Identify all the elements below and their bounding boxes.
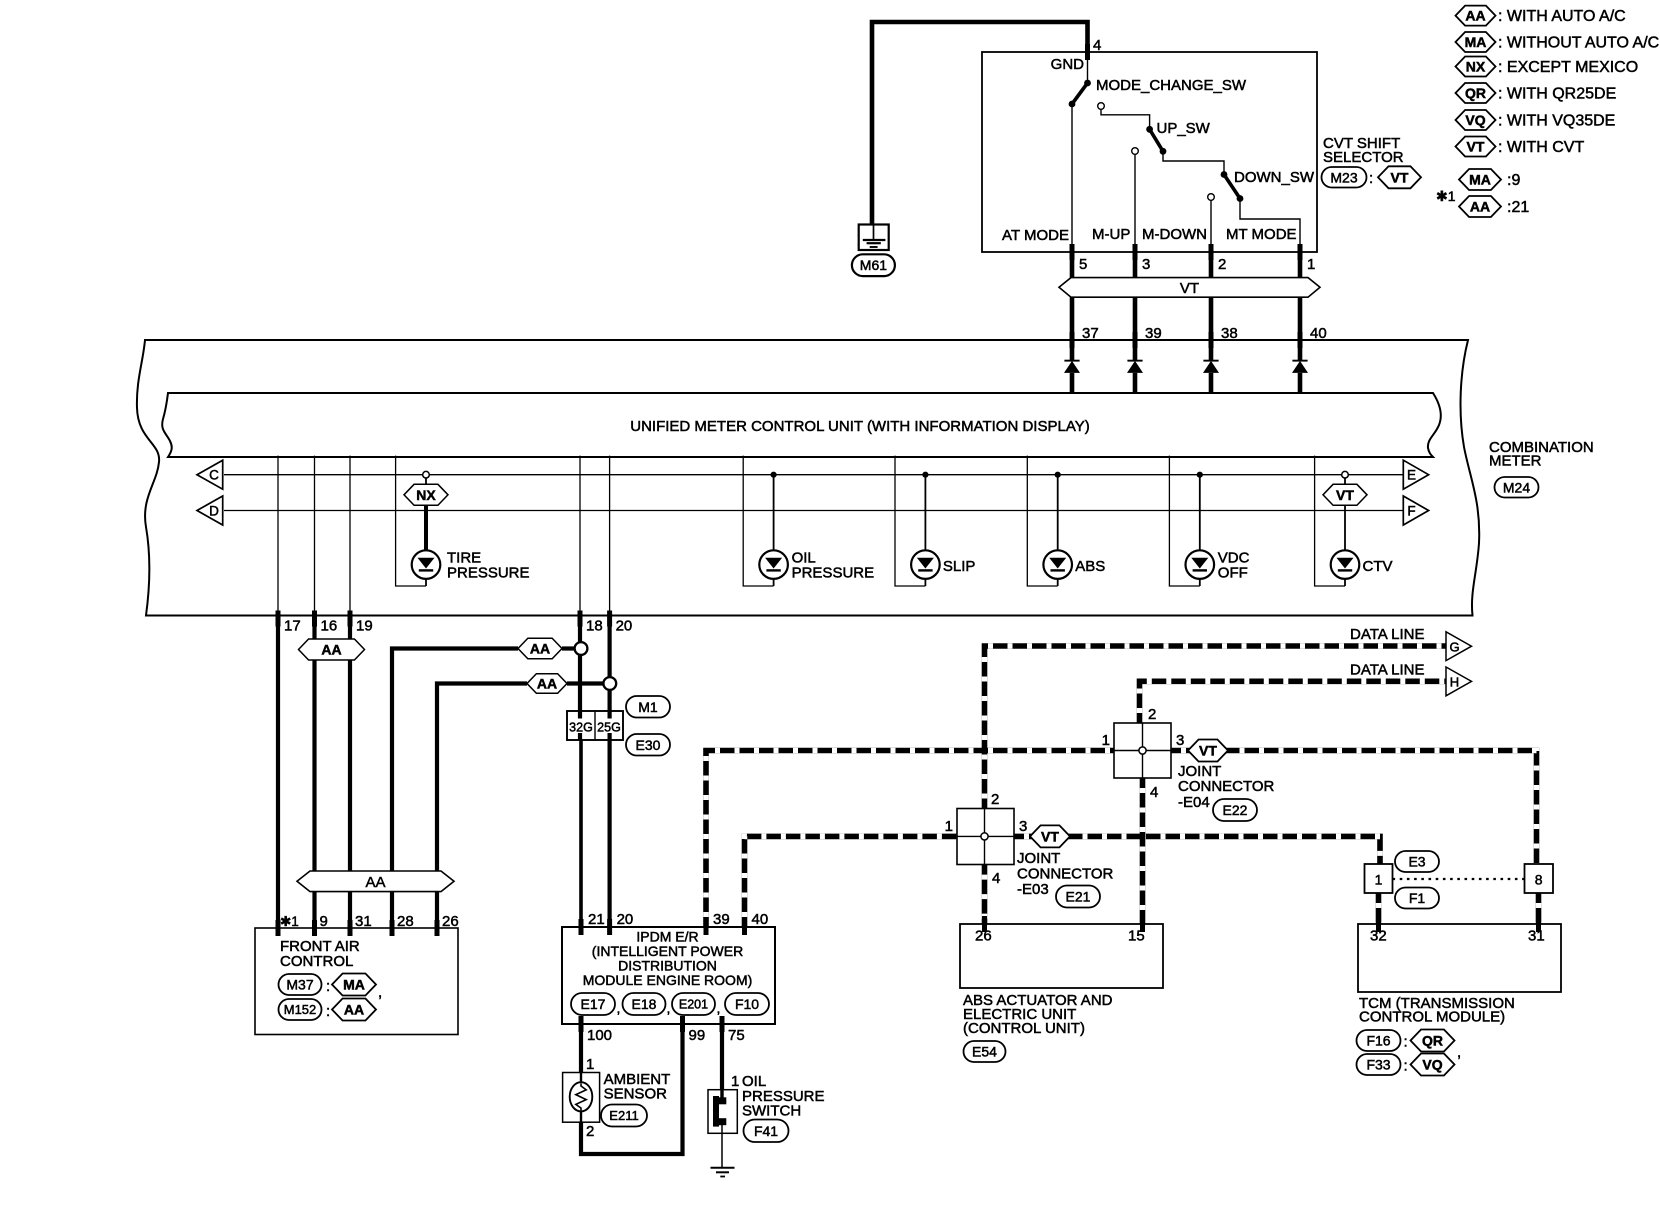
svg-text:SELECTOR: SELECTOR bbox=[1323, 149, 1404, 166]
svg-text:VQ: VQ bbox=[1422, 1057, 1442, 1073]
svg-text:E: E bbox=[1407, 468, 1416, 483]
svg-text:E54: E54 bbox=[972, 1044, 997, 1060]
svg-text:F41: F41 bbox=[754, 1123, 778, 1139]
svg-text:F: F bbox=[1407, 503, 1415, 518]
svg-text:MA: MA bbox=[1465, 34, 1487, 50]
svg-text:M152: M152 bbox=[284, 1002, 317, 1017]
svg-text:SWITCH: SWITCH bbox=[742, 1102, 801, 1119]
svg-text:VT: VT bbox=[1336, 487, 1354, 503]
svg-text:(CONTROL UNIT): (CONTROL UNIT) bbox=[963, 1020, 1085, 1037]
svg-text:15: 15 bbox=[1128, 928, 1145, 945]
svg-text:4: 4 bbox=[1150, 784, 1158, 801]
svg-text:MODE_CHANGE_SW: MODE_CHANGE_SW bbox=[1096, 77, 1247, 94]
svg-text:,: , bbox=[717, 1000, 721, 1016]
svg-text::: : bbox=[326, 978, 330, 995]
svg-text:: EXCEPT MEXICO: : EXCEPT MEXICO bbox=[1498, 59, 1638, 76]
svg-text:VT: VT bbox=[1391, 169, 1409, 185]
svg-text:M1: M1 bbox=[638, 699, 658, 715]
svg-text:19: 19 bbox=[356, 618, 373, 635]
svg-text:✱1: ✱1 bbox=[280, 914, 299, 929]
svg-text:4: 4 bbox=[1093, 37, 1101, 54]
svg-text::: : bbox=[1369, 170, 1373, 187]
svg-text:-E03: -E03 bbox=[1017, 881, 1049, 898]
svg-text:VT: VT bbox=[1199, 743, 1217, 759]
svg-text::: : bbox=[326, 1003, 330, 1020]
svg-text:MODULE ENGINE ROOM): MODULE ENGINE ROOM) bbox=[583, 972, 753, 988]
svg-text:1: 1 bbox=[586, 1056, 594, 1073]
svg-text::: : bbox=[1404, 1058, 1408, 1075]
svg-text:1: 1 bbox=[1102, 732, 1110, 749]
svg-text:3: 3 bbox=[1142, 256, 1150, 273]
svg-text:JOINT: JOINT bbox=[1017, 850, 1060, 867]
svg-text:3: 3 bbox=[1019, 818, 1027, 835]
svg-text:26: 26 bbox=[975, 928, 992, 945]
svg-text:AA: AA bbox=[321, 642, 341, 658]
svg-text:1: 1 bbox=[945, 818, 953, 835]
svg-text:DATA LINE: DATA LINE bbox=[1350, 626, 1424, 643]
svg-text:QR: QR bbox=[1465, 85, 1486, 101]
svg-text:1: 1 bbox=[731, 1073, 739, 1090]
svg-text:: WITHOUT AUTO A/C: : WITHOUT AUTO A/C bbox=[1498, 35, 1659, 52]
svg-text:39: 39 bbox=[713, 911, 730, 928]
svg-text:5: 5 bbox=[1079, 256, 1087, 273]
svg-text:: WITH QR25DE: : WITH QR25DE bbox=[1498, 86, 1616, 103]
svg-text:18: 18 bbox=[586, 618, 603, 635]
svg-text:: WITH AUTO A/C: : WITH AUTO A/C bbox=[1498, 8, 1626, 25]
svg-text:E17: E17 bbox=[581, 996, 606, 1012]
svg-text:,: , bbox=[667, 1000, 671, 1016]
svg-text:2: 2 bbox=[586, 1123, 594, 1140]
svg-text:20: 20 bbox=[617, 911, 634, 928]
svg-text:✱1: ✱1 bbox=[1436, 188, 1456, 204]
svg-text:E211: E211 bbox=[609, 1108, 638, 1123]
svg-text:3: 3 bbox=[1176, 732, 1184, 749]
svg-text:H: H bbox=[1450, 675, 1459, 690]
svg-text:F16: F16 bbox=[1366, 1033, 1390, 1049]
svg-text:GND: GND bbox=[1051, 56, 1085, 73]
svg-text:F10: F10 bbox=[735, 996, 759, 1012]
svg-text:AA: AA bbox=[1470, 199, 1490, 215]
svg-text:4: 4 bbox=[992, 870, 1000, 887]
svg-text:1: 1 bbox=[1307, 256, 1315, 273]
svg-text:E201: E201 bbox=[679, 998, 708, 1012]
svg-text:C: C bbox=[209, 468, 219, 483]
svg-text:E22: E22 bbox=[1223, 802, 1248, 818]
svg-text:AA: AA bbox=[530, 641, 550, 657]
svg-text:CONTROL MODULE): CONTROL MODULE) bbox=[1359, 1009, 1505, 1026]
svg-text:F33: F33 bbox=[1366, 1057, 1390, 1073]
svg-text:M37: M37 bbox=[286, 977, 313, 993]
svg-text:E30: E30 bbox=[636, 737, 661, 753]
svg-text:32G: 32G bbox=[569, 721, 593, 735]
svg-text:OFF: OFF bbox=[1218, 565, 1248, 582]
svg-text:2: 2 bbox=[1148, 706, 1156, 723]
svg-text:1: 1 bbox=[1375, 872, 1383, 888]
svg-text:AA: AA bbox=[1465, 8, 1485, 24]
svg-text:8: 8 bbox=[1535, 872, 1543, 888]
svg-text:NX: NX bbox=[416, 487, 436, 503]
svg-text:E18: E18 bbox=[632, 996, 657, 1012]
svg-text:100: 100 bbox=[587, 1027, 612, 1044]
svg-text:NX: NX bbox=[1466, 59, 1486, 75]
svg-text:17: 17 bbox=[284, 618, 301, 635]
svg-text:SLIP: SLIP bbox=[943, 558, 976, 575]
svg-text:25G: 25G bbox=[597, 721, 621, 735]
svg-text:VT: VT bbox=[1180, 280, 1199, 297]
svg-text:31: 31 bbox=[1528, 928, 1545, 945]
svg-text:ABS: ABS bbox=[1075, 558, 1105, 575]
svg-text:G: G bbox=[1449, 640, 1459, 655]
svg-text:M-DOWN: M-DOWN bbox=[1142, 226, 1207, 243]
svg-text:2: 2 bbox=[991, 791, 999, 808]
svg-text::9: :9 bbox=[1507, 172, 1520, 189]
svg-text:16: 16 bbox=[321, 618, 338, 635]
svg-text:METER: METER bbox=[1489, 453, 1542, 470]
svg-text:M-UP: M-UP bbox=[1092, 226, 1130, 243]
svg-text:CONNECTOR: CONNECTOR bbox=[1178, 778, 1275, 795]
svg-text:-E04: -E04 bbox=[1178, 794, 1210, 811]
svg-text:21: 21 bbox=[588, 911, 605, 928]
svg-text:D: D bbox=[209, 503, 219, 518]
svg-text:AT MODE: AT MODE bbox=[1002, 227, 1069, 244]
svg-text:E21: E21 bbox=[1066, 889, 1091, 905]
svg-text:MA: MA bbox=[1469, 172, 1491, 188]
svg-text:: WITH CVT: : WITH CVT bbox=[1498, 139, 1584, 156]
svg-text:DATA LINE: DATA LINE bbox=[1350, 662, 1424, 679]
svg-text::21: :21 bbox=[1507, 199, 1529, 216]
svg-text:99: 99 bbox=[689, 1027, 706, 1044]
svg-text:MT MODE: MT MODE bbox=[1226, 226, 1297, 243]
svg-text:VT: VT bbox=[1467, 139, 1485, 155]
svg-text:QR: QR bbox=[1422, 1033, 1443, 1049]
svg-text:CTV: CTV bbox=[1363, 558, 1393, 575]
svg-text:PRESSURE: PRESSURE bbox=[447, 565, 530, 582]
svg-text:F1: F1 bbox=[1409, 890, 1426, 906]
svg-text:VT: VT bbox=[1041, 828, 1059, 844]
svg-text:SENSOR: SENSOR bbox=[604, 1086, 668, 1103]
svg-text:40: 40 bbox=[752, 911, 769, 928]
svg-text:CONTROL: CONTROL bbox=[280, 953, 353, 970]
svg-text:CONNECTOR: CONNECTOR bbox=[1017, 866, 1114, 883]
svg-text:M23: M23 bbox=[1330, 169, 1357, 185]
svg-text:MA: MA bbox=[343, 977, 365, 993]
svg-text:UP_SW: UP_SW bbox=[1157, 120, 1211, 137]
svg-text:,: , bbox=[1457, 1044, 1461, 1061]
svg-text:2: 2 bbox=[1218, 256, 1226, 273]
svg-text:UNIFIED METER CONTROL UNIT (WI: UNIFIED METER CONTROL UNIT (WITH INFORMA… bbox=[630, 418, 1089, 435]
svg-text:32: 32 bbox=[1370, 928, 1387, 945]
svg-text:VQ: VQ bbox=[1465, 112, 1485, 128]
svg-text:AA: AA bbox=[537, 676, 557, 692]
svg-text:AA: AA bbox=[365, 874, 385, 891]
svg-text:,: , bbox=[617, 1000, 621, 1016]
svg-text:AA: AA bbox=[344, 1002, 364, 1018]
svg-text:M61: M61 bbox=[860, 257, 887, 273]
svg-text:PRESSURE: PRESSURE bbox=[792, 565, 875, 582]
svg-text:20: 20 bbox=[616, 618, 633, 635]
svg-text:DOWN_SW: DOWN_SW bbox=[1234, 169, 1315, 186]
svg-text::: : bbox=[1404, 1034, 1408, 1051]
svg-text:,: , bbox=[378, 984, 382, 1001]
svg-text:M24: M24 bbox=[1503, 479, 1530, 495]
svg-text:75: 75 bbox=[728, 1027, 745, 1044]
svg-text:E3: E3 bbox=[1408, 854, 1425, 870]
svg-text:: WITH VQ35DE: : WITH VQ35DE bbox=[1498, 113, 1615, 130]
